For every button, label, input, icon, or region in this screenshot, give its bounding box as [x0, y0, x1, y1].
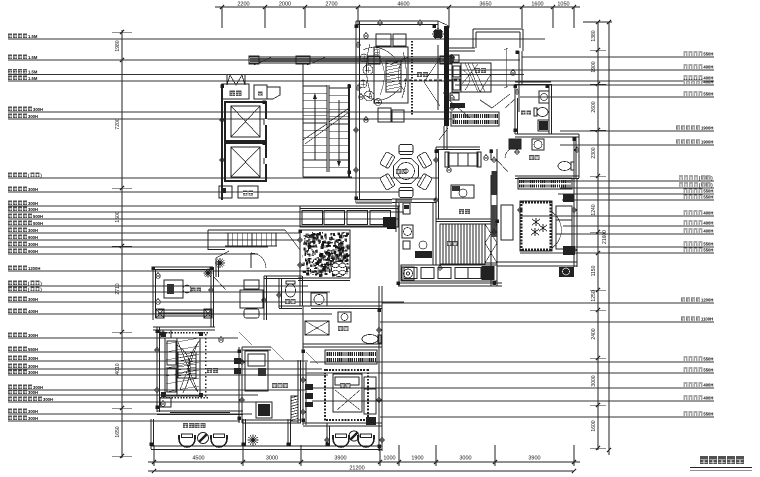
small shaft box — [254, 85, 267, 99]
svg-text:1600: 1600 — [591, 420, 597, 431]
kitchen label — [447, 241, 452, 246]
wing bottom wall — [497, 261, 577, 263]
br bed — [333, 374, 362, 412]
dashed sight line — [404, 79, 460, 81]
svg-text:400H: 400H — [28, 309, 38, 314]
left balcony chairs — [179, 435, 195, 447]
elevator block left wall — [221, 84, 223, 200]
wardrobe strip (hatched text rows) — [451, 112, 499, 126]
br bedroom bottom wall — [303, 422, 382, 424]
svg-text:400H: 400H — [703, 65, 713, 70]
distribution room 配电 — [219, 186, 232, 198]
living outlet symbols — [364, 34, 369, 39]
svg-text:1.5M: 1.5M — [28, 34, 38, 39]
living room right dark wall — [444, 26, 449, 126]
small study label 小书房 — [272, 383, 277, 388]
flue box 换气 — [222, 84, 249, 99]
left outlet annotation leader lines — [8, 38, 545, 40]
corner posts — [161, 332, 166, 337]
study sofa — [448, 153, 478, 166]
svg-text:550H: 550H — [703, 195, 713, 200]
svg-text:550H: 550H — [703, 92, 713, 97]
utility right wall — [432, 203, 434, 265]
sofa seats bottom — [378, 108, 391, 122]
bedroom outlets — [450, 56, 455, 61]
svg-text:2600: 2600 — [591, 101, 597, 112]
svg-text:3000: 3000 — [459, 456, 471, 462]
double door swing diagonals — [424, 58, 440, 82]
svg-text:400H: 400H — [703, 396, 713, 401]
small study right wall — [297, 360, 299, 423]
left room outlets — [156, 274, 161, 279]
elevator shaft 2 — [225, 143, 266, 181]
svg-text:300H: 300H — [28, 416, 38, 421]
br door diag — [306, 352, 318, 364]
br bedroom right wall — [378, 286, 380, 451]
svg-text:1100H: 1100H — [701, 317, 713, 322]
wall stub below dark wall — [443, 126, 445, 149]
switch blobs column — [305, 384, 313, 390]
svg-text:2700: 2700 — [325, 2, 337, 8]
rug hatched — [386, 61, 401, 92]
public bath basin — [539, 91, 549, 103]
wing dark boxes — [563, 194, 574, 202]
br bedroom label — [340, 383, 345, 388]
left room desk — [164, 280, 183, 298]
dining table octagon — [394, 159, 419, 184]
sofa seats top — [376, 34, 391, 46]
svg-text:3000: 3000 — [266, 456, 278, 462]
door swing marks below rail — [254, 57, 272, 65]
svg-text:1000: 1000 — [383, 456, 395, 462]
svg-text:1900H: 1900H — [701, 140, 713, 145]
bedroom right wall — [518, 51, 520, 112]
left room window sill — [158, 309, 212, 311]
living room top wall — [356, 20, 438, 22]
divider switch blobs — [234, 358, 241, 364]
curtain control dark box — [366, 417, 376, 425]
corner plant blob — [434, 30, 442, 38]
left balcony label 观景阳台 — [183, 423, 188, 428]
master bedroom left wall — [156, 327, 158, 412]
bedside tables — [450, 55, 459, 62]
left room left wall — [152, 267, 154, 320]
svg-text:300H: 300H — [28, 409, 38, 414]
guest toilet walls — [278, 278, 280, 308]
svg-text:300H: 300H — [28, 187, 38, 192]
right outer dimension line — [608, 22, 610, 455]
bottom overall dimension 21200 — [148, 470, 574, 472]
svg-text:21200: 21200 — [349, 466, 364, 472]
svg-text:900H: 900H — [28, 235, 38, 240]
svg-text:550H: 550H — [703, 52, 713, 57]
master outlets — [161, 332, 166, 337]
bedroom balcony walls — [472, 29, 474, 48]
bedroom door diagonal — [480, 100, 492, 108]
wing corridor cell — [501, 205, 513, 240]
svg-text:2400: 2400 — [591, 328, 597, 339]
study label 书房 — [459, 209, 464, 214]
elevator doors — [265, 119, 268, 125]
svg-text:1.5M: 1.5M — [28, 76, 38, 81]
wall junction marks — [355, 25, 359, 29]
drawing title 插座布置图 — [700, 456, 708, 464]
right inner dimension line — [597, 22, 599, 450]
svg-text:400H: 400H — [703, 211, 713, 216]
svg-text:1380: 1380 — [591, 30, 597, 41]
svg-text:300H: 300H — [28, 390, 38, 395]
svg-text:300H: 300H — [28, 207, 38, 212]
wardrobe strip below master bath — [518, 178, 572, 189]
kitchen lower cabinet row — [401, 265, 497, 281]
master bath right wall — [575, 137, 577, 178]
nanny room hatched border bed — [520, 201, 552, 251]
public bath toilet — [534, 108, 537, 116]
svg-text:400H: 400H — [703, 221, 713, 226]
elevator shaft 1 — [225, 102, 266, 141]
curtain dimension line — [505, 48, 507, 88]
small study top wall — [242, 346, 271, 348]
right balcony chairs — [333, 435, 349, 447]
svg-text:1900: 1900 — [591, 61, 597, 72]
svg-text:500H: 500H — [33, 221, 43, 226]
stair arrows — [314, 95, 316, 160]
bedroom/study divider wall — [238, 347, 240, 423]
bed hatch pillow — [178, 352, 196, 378]
bathtub — [305, 321, 329, 335]
middle balcony star — [248, 439, 259, 441]
svg-text:900H: 900H — [28, 249, 38, 254]
stair bottom wall — [303, 176, 352, 178]
study bottom wall — [436, 218, 494, 220]
svg-text:1600: 1600 — [531, 2, 543, 8]
foyer star lights — [215, 262, 225, 264]
kitchen fridge X-box — [485, 224, 497, 263]
study left wall — [435, 147, 437, 221]
svg-text:4600: 4600 — [397, 2, 409, 8]
small study chair — [258, 404, 270, 416]
right balcony table — [349, 431, 359, 441]
lower stair flight to entry — [225, 232, 277, 234]
master bed — [165, 338, 200, 396]
svg-text:1150: 1150 — [591, 265, 597, 276]
svg-text:2710: 2710 — [115, 283, 121, 294]
thick divider wall right of study/kitchen — [490, 149, 492, 160]
dining label 餐厅 — [396, 169, 401, 174]
svg-text:1240: 1240 — [591, 204, 597, 215]
top dimension line — [215, 6, 580, 8]
door jamb line right of living — [437, 45, 439, 110]
svg-text:1650: 1650 — [115, 426, 121, 437]
svg-text:1500: 1500 — [115, 211, 121, 222]
kitchen/utility top wall — [392, 198, 436, 200]
left balcony walls — [150, 419, 152, 449]
public bath right wall — [548, 84, 550, 134]
foyer corner walls — [215, 258, 217, 277]
TV dotted wall strip — [411, 41, 413, 43]
bottom dimension line — [148, 461, 580, 463]
svg-text:2300: 2300 — [591, 147, 597, 158]
bed — [452, 63, 491, 92]
bath sink — [338, 312, 351, 322]
svg-text:300H: 300H — [28, 370, 38, 375]
master bath toilet — [571, 162, 574, 170]
svg-text:3650: 3650 — [479, 2, 491, 8]
left vertical dimension line — [121, 30, 123, 458]
master bedroom window bottom — [157, 410, 243, 412]
svg-text:1250: 1250 — [591, 290, 597, 301]
study desk — [451, 185, 474, 198]
corridor window band — [300, 206, 398, 227]
study outlets — [447, 168, 452, 173]
br cushion column — [364, 377, 376, 414]
hall wall below living — [356, 202, 392, 204]
svg-text:1.5M: 1.5M — [28, 69, 38, 74]
kitchen striped counter — [440, 224, 485, 264]
wing hatch blocks left wall — [491, 205, 496, 237]
utility appliance boxes — [403, 203, 410, 214]
bath block top wall — [515, 81, 551, 83]
living interior extra curves — [363, 47, 395, 58]
door arc nanny — [552, 212, 561, 248]
left room door diagonal — [213, 276, 226, 290]
kitchen fan symbol — [332, 262, 347, 277]
bath left diag wall — [303, 305, 311, 307]
entry basin — [311, 293, 327, 306]
plant squiggles — [360, 54, 368, 62]
br bed dotted border — [324, 369, 326, 371]
canopy dotted frame — [160, 332, 162, 334]
bath bottom wall — [303, 343, 382, 345]
master bath bottom wall — [515, 175, 579, 177]
svg-text:300H: 300H — [43, 397, 53, 402]
utility counter dark — [415, 251, 432, 258]
entry table — [240, 290, 263, 308]
stair break line — [303, 124, 327, 140]
svg-text:2000: 2000 — [279, 2, 291, 8]
living room label 客厅 — [417, 72, 422, 77]
svg-text:300H: 300H — [33, 107, 43, 112]
left room small label — [191, 288, 196, 293]
svg-text:550H: 550H — [703, 248, 713, 253]
svg-text:400H: 400H — [703, 229, 713, 234]
svg-text:1050: 1050 — [557, 2, 569, 8]
svg-text:1200H: 1200H — [701, 298, 713, 303]
left balcony table — [198, 433, 209, 444]
svg-text:1900H: 1900H — [701, 126, 713, 131]
dark cabinet below bed — [450, 103, 465, 108]
living room left wall — [355, 21, 357, 203]
svg-text:550H: 550H — [703, 368, 713, 373]
small study desk — [245, 351, 268, 391]
distribution box dark — [387, 219, 396, 229]
bottom bath label 主卫 — [338, 326, 343, 331]
wall between baths — [515, 133, 579, 135]
svg-text:300H: 300H — [28, 201, 38, 206]
folded chair glyphs — [532, 219, 540, 225]
left room right wall — [210, 267, 212, 327]
svg-text:7200: 7200 — [115, 118, 121, 129]
dense kitchen mass — [300, 230, 350, 278]
M pressure door symbol — [227, 75, 245, 85]
wing right outer wall — [573, 137, 575, 267]
svg-text:21600: 21600 — [602, 230, 608, 244]
dining pendant — [404, 169, 408, 173]
master bedroom door diagonal — [239, 332, 252, 345]
svg-text:4500: 4500 — [192, 456, 204, 462]
svg-text:300H: 300H — [28, 333, 38, 338]
kitchen dark appliance in row — [482, 267, 494, 280]
right outlet annotation leader lines — [522, 56, 714, 58]
utility left wall — [395, 199, 397, 232]
band end dark box — [383, 217, 396, 227]
dense kitchen bottom wall — [298, 277, 350, 279]
entry wall verticals — [299, 250, 301, 306]
small study bottom wall — [242, 419, 301, 421]
svg-text:300H: 300H — [28, 356, 38, 361]
corridor door arcs — [505, 99, 515, 108]
nightstands — [160, 330, 171, 338]
br wardrobe text strip — [325, 350, 377, 364]
svg-text:300H: 300H — [28, 297, 38, 302]
hall diagonals (door swings) — [449, 100, 470, 118]
radiator hatch on left wall — [291, 396, 298, 421]
pointed duct polygon — [267, 87, 280, 99]
svg-text:300H: 300H — [28, 242, 38, 247]
study top wall — [436, 146, 480, 148]
bedroom label 次卧 — [475, 68, 480, 73]
svg-text:1.5M: 1.5M — [28, 55, 38, 60]
bottom master bath top wall — [311, 305, 382, 307]
washing machine — [402, 267, 414, 280]
svg-text:1980: 1980 — [115, 40, 121, 51]
svg-text:3900: 3900 — [334, 456, 346, 462]
bedroom top wall — [446, 47, 475, 49]
left room top wall — [153, 266, 213, 268]
guest toilet label 公卫 — [285, 299, 290, 304]
svg-text:3900: 3900 — [528, 456, 540, 462]
svg-text:3000: 3000 — [591, 375, 597, 386]
svg-text:300H: 300H — [28, 364, 38, 369]
guest toilet — [286, 281, 295, 284]
public bath label 公卫 — [521, 110, 526, 115]
svg-text:2200: 2200 — [237, 2, 249, 8]
entry door arc — [251, 253, 266, 268]
kitchen bottom wall — [398, 282, 502, 284]
public bath dark box — [539, 121, 548, 130]
svg-text:300H: 300H — [28, 228, 38, 233]
window rail band above stair — [249, 56, 455, 58]
svg-text:400H: 400H — [703, 80, 713, 85]
svg-text:550H: 550H — [703, 242, 713, 247]
stair flights — [302, 83, 304, 177]
dining chairs — [417, 173, 433, 190]
svg-text:550H: 550H — [28, 347, 38, 352]
bed blanket curves — [177, 345, 190, 393]
scattered outlet symbols — [356, 43, 360, 47]
bottom bath toilet — [378, 335, 381, 343]
svg-text:1200H: 1200H — [28, 266, 40, 271]
svg-text:500H: 500H — [33, 214, 43, 219]
band-stair connector wall — [302, 63, 304, 83]
master bath basin — [509, 139, 521, 149]
br bedroom left wall — [302, 347, 304, 425]
master bedroom label 主卧 — [207, 368, 212, 373]
landing walls — [208, 229, 285, 231]
svg-text:550H: 550H — [703, 357, 713, 362]
svg-text:550H: 550H — [703, 412, 713, 417]
master bedroom top wall — [153, 326, 215, 328]
cushion column right — [556, 206, 572, 249]
public bath left wall — [514, 84, 516, 134]
hall wall gray fill — [356, 199, 392, 201]
svg-text:1900: 1900 — [411, 456, 423, 462]
svg-text:550H: 550H — [703, 189, 713, 194]
wing left wall lower — [496, 149, 498, 286]
small study door diag — [271, 347, 284, 360]
svg-text:300H: 300H — [28, 114, 38, 119]
svg-text:400H: 400H — [703, 383, 713, 388]
master bath label 主卫 — [529, 155, 534, 160]
dense kitchen left wall — [299, 230, 301, 278]
